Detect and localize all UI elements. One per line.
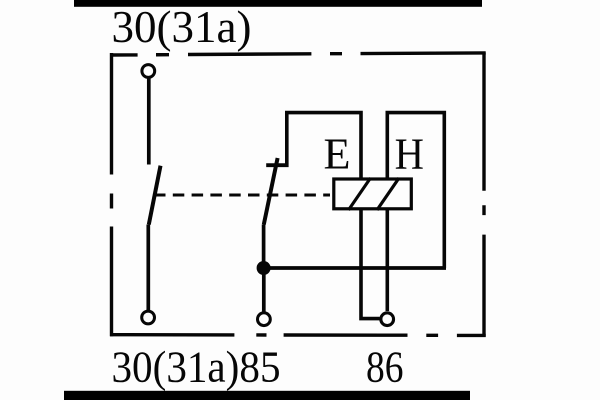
wire from S2 blade down to junction node bbox=[262, 225, 266, 269]
switch S2 movable blade (armature contact) bbox=[264, 158, 278, 225]
coil hatch stroke 2 bbox=[377, 178, 399, 210]
svg-text:30(31a): 30(31a) bbox=[112, 2, 252, 52]
svg-text:30(31a)85: 30(31a)85 bbox=[112, 342, 281, 392]
svg-text:E: E bbox=[324, 130, 351, 179]
junction node (terminal 85 / coil common) bbox=[257, 261, 271, 275]
mechanical actuator linkage (dashed line from S1 to coil) bbox=[154, 193, 330, 196]
wire from junction node down to terminal 85 bbox=[262, 268, 266, 312]
wire from switch S1 to bottom terminal 30(31a) bbox=[146, 225, 150, 311]
relay enclosure K1 (dashed housing outline) bbox=[110, 53, 486, 337]
relay coil windings E/H (hatched box) bbox=[334, 179, 412, 209]
wire: E winding top lead, left leg down to armature corner bbox=[287, 113, 361, 178]
wire: H winding bottom lead to terminal 86 bbox=[385, 210, 389, 311]
terminal 30(31a) top bbox=[142, 65, 155, 78]
terminal 86 bbox=[381, 313, 394, 326]
wire from junction node to H winding right leg bbox=[264, 266, 446, 270]
svg-text:H: H bbox=[395, 130, 424, 179]
wire from terminal 30 to switch S1 bbox=[147, 79, 151, 165]
svg-text:86: 86 bbox=[366, 342, 404, 392]
wire: H winding top lead, right leg bbox=[387, 113, 444, 268]
wire: armature corner horizontal (pivot of S2) bbox=[266, 163, 288, 167]
coil hatch stroke 1 bbox=[349, 178, 371, 210]
wire: E winding bottom lead to terminal 86 bbox=[361, 210, 380, 319]
terminal 30(31a) bottom bbox=[142, 311, 155, 324]
switch S1 movable blade (contact 30/31a) bbox=[149, 166, 161, 225]
terminal 85 bbox=[258, 313, 271, 326]
